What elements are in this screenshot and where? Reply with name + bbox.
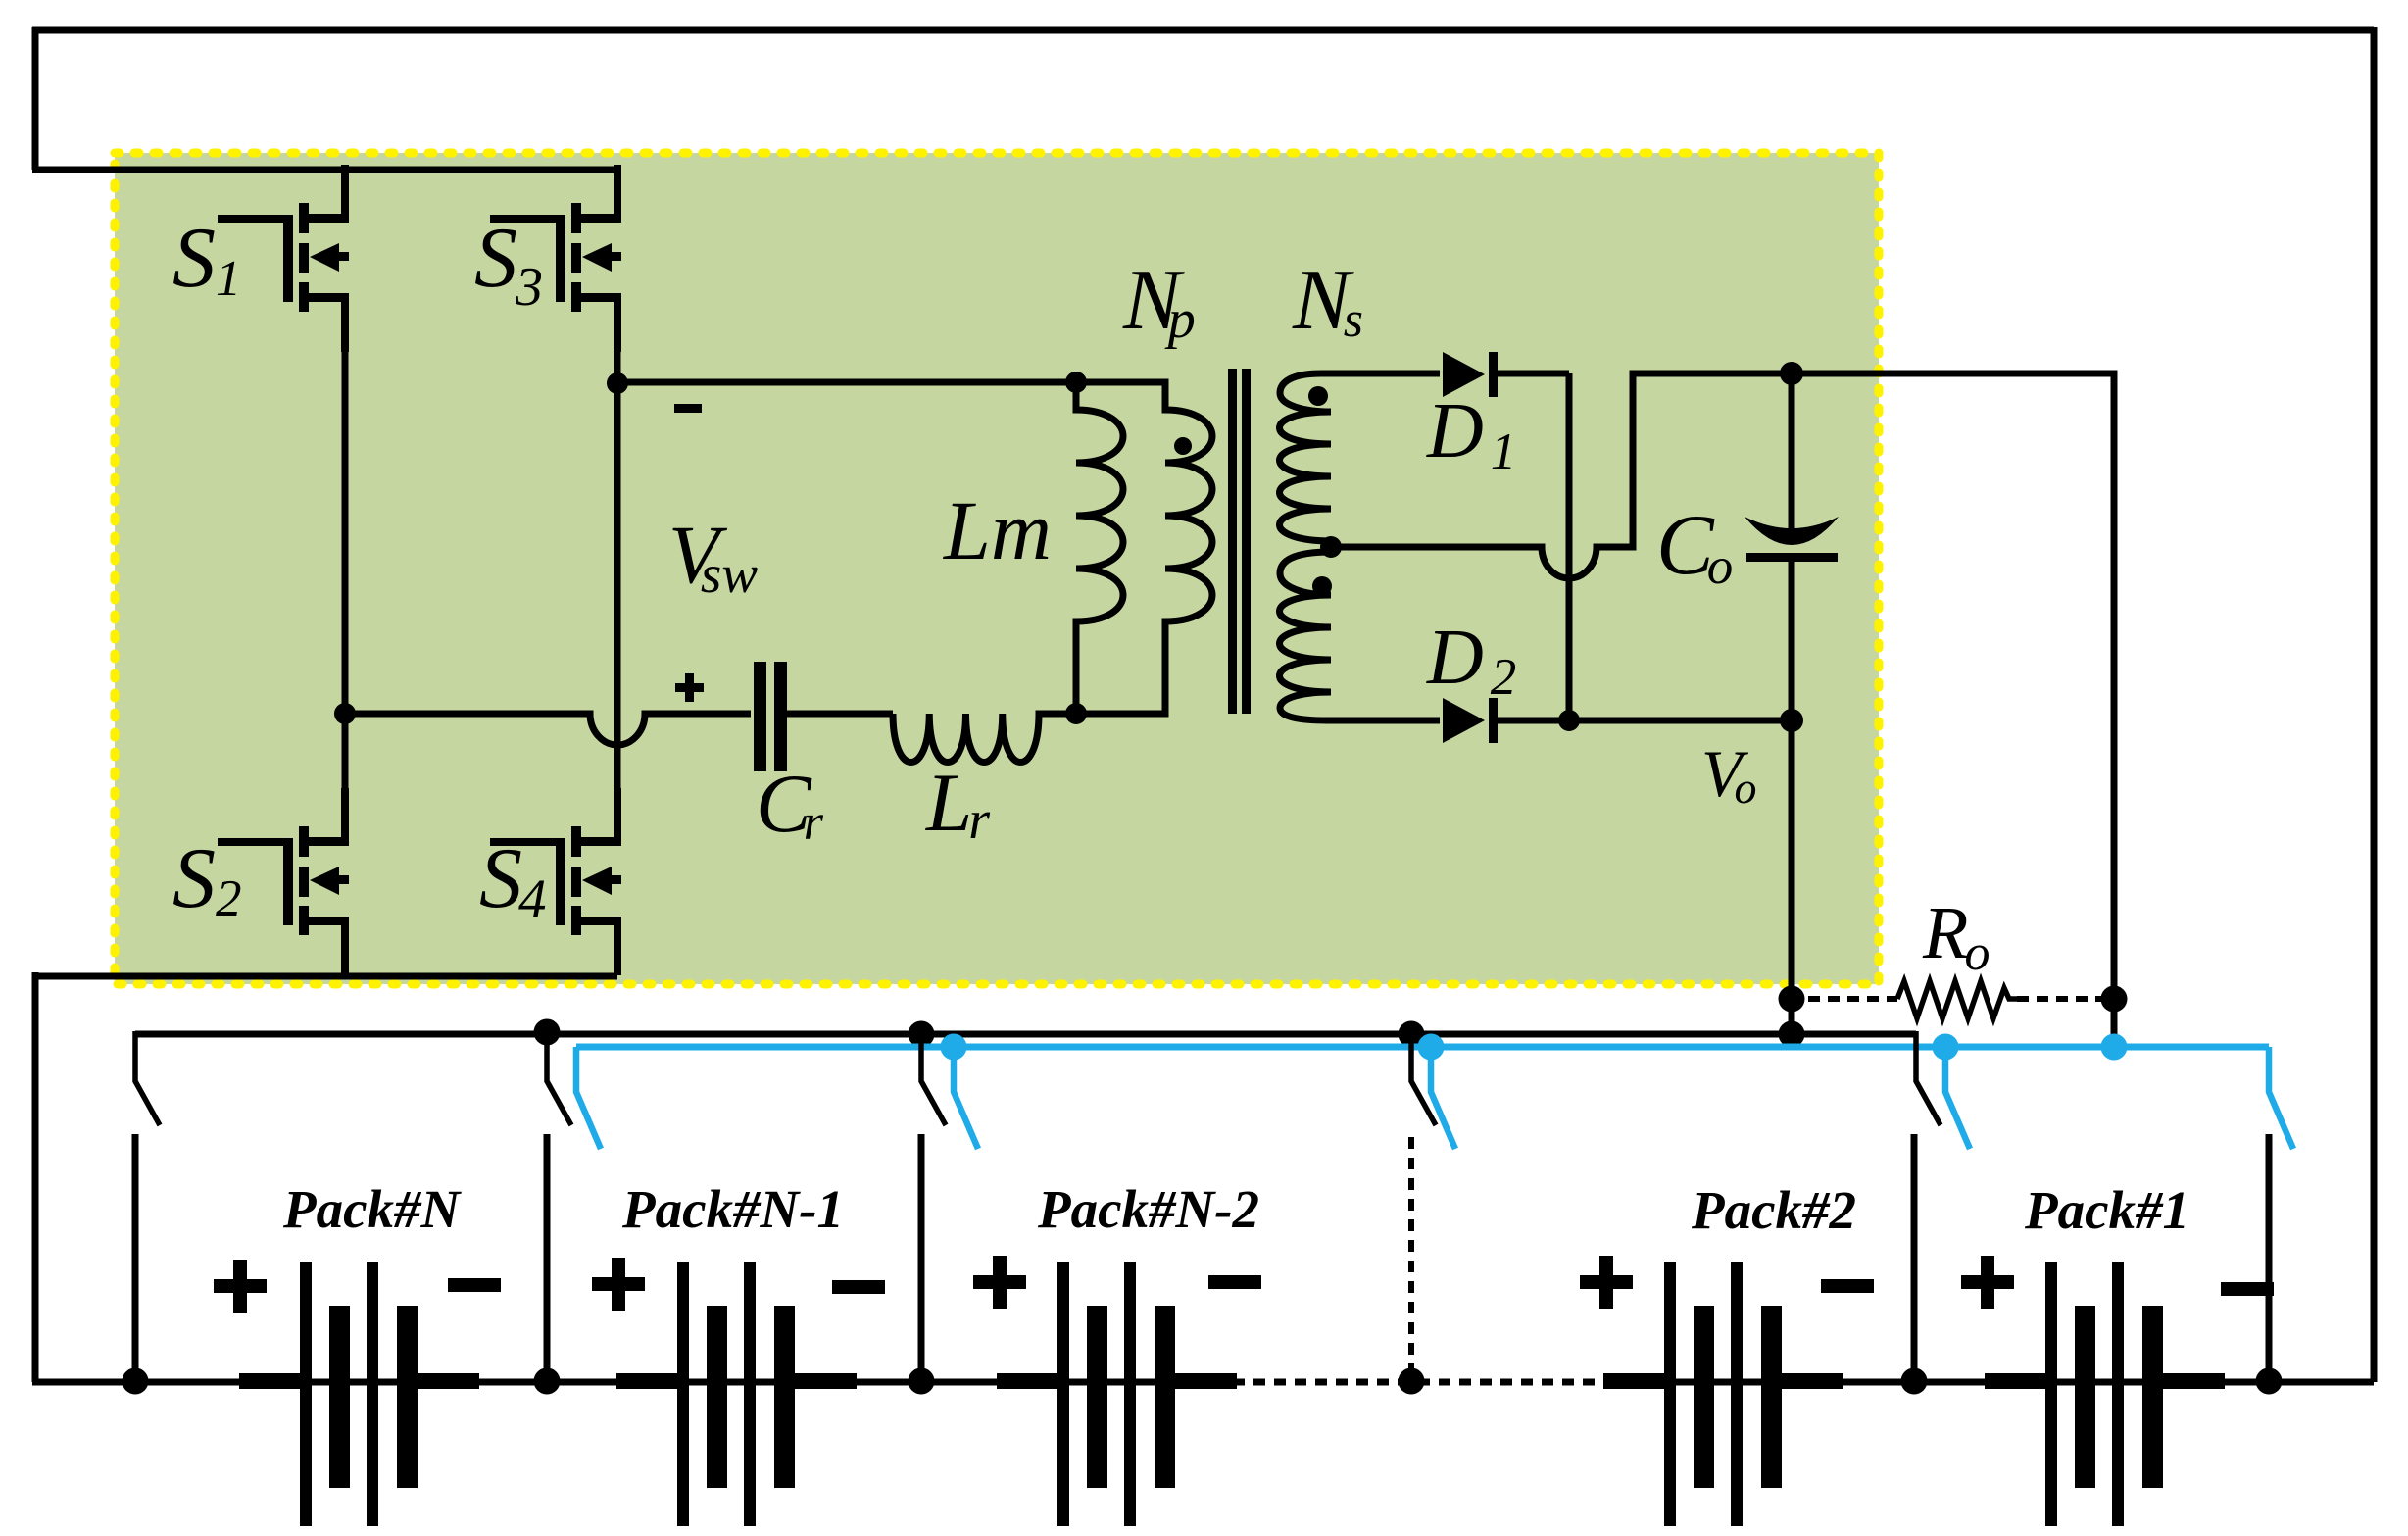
switch pack 1 blue lever — [2269, 1047, 2293, 1149]
wire: bottom pack string left lead — [32, 1379, 138, 1386]
svg-text:Pack#N-2: Pack#N-2 — [1037, 1179, 1259, 1239]
node: blue bus junction pack 2 — [1933, 1034, 1959, 1061]
node: string junction pack N plus — [123, 1368, 149, 1395]
battery pack 2 — [1603, 1262, 1843, 1526]
minus mark pack 2 — [1821, 1279, 1874, 1293]
capacitor Co — [1745, 373, 1839, 720]
svg-text:Pack#1: Pack#1 — [2024, 1180, 2189, 1240]
transformer secondary lower winding Ns — [1280, 547, 1441, 720]
svg-text:Pack#N-1: Pack#N-1 — [621, 1179, 844, 1239]
switch pack N (black lever) — [135, 1031, 160, 1125]
switch pack N-1 blue lever — [576, 1047, 601, 1149]
battery pack N-2 — [997, 1262, 1237, 1526]
transistor S2 — [218, 788, 349, 975]
node: bus junction pack N-1 — [534, 1019, 561, 1046]
node: S1-S2 midpoint — [334, 703, 356, 724]
transformer core — [1228, 369, 1251, 714]
converter module shaded region with yellow dashed boundary — [115, 153, 1879, 984]
wire: pack N-1 positive contact — [544, 1134, 551, 1382]
label Vsw plus sign — [675, 673, 704, 702]
wire: blue selection bus — [576, 1044, 2269, 1051]
plus mark pack N-1 — [592, 1258, 645, 1311]
wire: pack N positive contact — [132, 1134, 139, 1382]
label Vsw minus sign — [674, 404, 702, 413]
minus mark pack N-2 — [1208, 1275, 1261, 1289]
svg-text:Lm: Lm — [942, 483, 1052, 577]
plus mark pack 2 — [1580, 1256, 1633, 1309]
polarity dot Np — [1174, 437, 1192, 455]
plus mark pack N-2 — [973, 1256, 1026, 1309]
battery pack N — [239, 1262, 479, 1526]
wire: outer right frame — [2371, 27, 2378, 1382]
node: Ro left terminal — [1779, 986, 1805, 1013]
switch pack 2 blue lever — [1945, 1047, 1970, 1149]
node: blue bus junction omitted packs — [1418, 1034, 1445, 1061]
wire: pack 1 negative contact — [2266, 1134, 2273, 1382]
transistor S4 — [490, 788, 621, 975]
wire: pack N-2 positive contact — [918, 1134, 925, 1382]
wire: S1 source to midpoint node — [342, 343, 349, 714]
wire: pack series string bottom (solid right part) — [1646, 1379, 2374, 1386]
inductor Lm (magnetizing) — [1076, 382, 1123, 714]
transistor S1 — [218, 165, 349, 352]
node: bus junction pack N-2 — [909, 1021, 935, 1048]
node: primary top junction — [1065, 372, 1087, 393]
wire: output plus to right drop — [1792, 373, 2114, 999]
node: bus junction output minus — [1779, 1021, 1805, 1048]
wire: omitted pack contact (dashed) — [1408, 1137, 1414, 1372]
switch pack N-2 black lever — [921, 1034, 946, 1125]
switch omitted pack blue lever — [1431, 1047, 1455, 1149]
diode D2 — [1443, 698, 1498, 743]
minus mark pack N — [448, 1278, 501, 1292]
wire: pack 2 positive contact — [1911, 1134, 1918, 1382]
wire: Cr to Lr — [787, 711, 893, 718]
node: secondary center tap — [1320, 536, 1342, 558]
wire: S3-S4 center leg — [614, 343, 621, 796]
wire: dashed link Ro to right node — [2017, 996, 2101, 1002]
wire: right node to blue selection bus — [2111, 999, 2118, 1043]
wire: black equalizer bus — [135, 1031, 1916, 1038]
inductor Lr — [893, 714, 1076, 763]
node: S3-S4 midpoint (switching node) — [607, 372, 628, 394]
switch pack 2 black lever — [1916, 1031, 1941, 1125]
wire: outer top rail — [32, 27, 2374, 34]
polarity dot Ns upper — [1308, 386, 1328, 406]
node: bus junction omitted packs — [1399, 1021, 1425, 1048]
wire: bridge bottom rail — [32, 973, 617, 980]
wire: outer left frame lower segment — [32, 972, 39, 1382]
node: string junction pack 1 minus — [2256, 1368, 2283, 1395]
diode D1 — [1443, 352, 1498, 397]
switch pack N-2 blue lever — [954, 1047, 978, 1149]
wire: output minus drop to equalizing bus — [1789, 720, 1795, 1034]
battery pack 1 — [1985, 1262, 2225, 1526]
node: string junction omitted packs — [1399, 1368, 1425, 1395]
polarity dot Ns lower — [1312, 576, 1332, 596]
wire: S1-S2 node to S2 drain — [342, 710, 349, 796]
wire: switching node to transformer primary top — [617, 379, 1076, 386]
switch omitted pack black lever — [1411, 1034, 1436, 1125]
node: string junction packs N / N-1 — [534, 1368, 561, 1395]
wire: outer left frame upper segment — [32, 27, 39, 170]
node: primary bottom junction — [1065, 703, 1087, 724]
node: string junction packs N-1 / N-2 — [909, 1368, 935, 1395]
minus mark pack 1 — [2221, 1282, 2274, 1296]
node: output plus junction — [1780, 362, 1803, 385]
wire: bridge top rail — [32, 167, 617, 173]
node: blue bus junction pack N-2 — [941, 1034, 967, 1061]
node: blue bus junction output plus — [2101, 1034, 2128, 1061]
node: string junction packs 2 / 1 — [1901, 1368, 1928, 1395]
transformer primary winding Np — [1076, 382, 1212, 714]
wire: D1 cathode to rectifier junction — [1498, 371, 1569, 377]
wire: center tap to output plus with crossover hop — [1331, 373, 1792, 578]
svg-text:Pack#2: Pack#2 — [1691, 1180, 1856, 1240]
resistor Ro — [1897, 981, 2017, 1018]
minus mark pack N-1 — [832, 1280, 885, 1294]
plus mark pack 1 — [1961, 1256, 2014, 1309]
svg-text:Pack#N: Pack#N — [282, 1179, 463, 1239]
wire: dashed link output to Ro — [1808, 996, 1897, 1002]
wire: rectifier cathode vertical — [1566, 373, 1573, 720]
wire: D2 cathode to output minus node — [1498, 718, 1792, 724]
node: output minus junction — [1780, 709, 1803, 732]
transformer secondary upper winding Ns — [1280, 373, 1441, 547]
node: Ro right terminal — [2101, 986, 2128, 1013]
node: rectifier cathode junction — [1558, 710, 1580, 731]
switch pack N-1 black lever — [547, 1034, 571, 1125]
capacitor Cr — [754, 662, 787, 771]
battery pack N-1 — [616, 1262, 857, 1526]
wire: pack series string bottom (solid left part) — [32, 1379, 1233, 1386]
wire: S1-S2 node to Cr with crossover hop — [345, 714, 751, 745]
wire: pack series string bottom (dashed omitted packs) — [1233, 1379, 1656, 1386]
plus mark pack N — [214, 1260, 267, 1313]
transistor S3 — [490, 165, 621, 352]
